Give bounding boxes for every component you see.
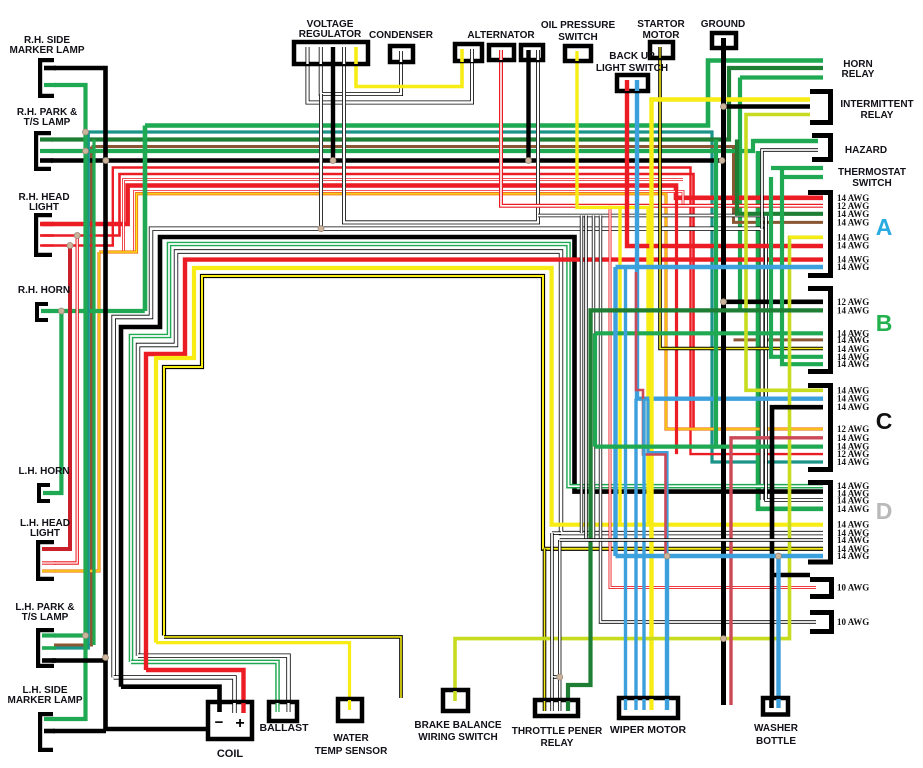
wire gray branch to 10AWG-2 connector bbox=[601, 216, 817, 623]
pin RH horn bbox=[41, 309, 50, 313]
wire white loop line1 down to D3 bbox=[114, 229, 762, 678]
pin ground bbox=[721, 38, 726, 48]
wire VR black to black bus bbox=[331, 52, 335, 161]
svg-text:14 AWG: 14 AWG bbox=[837, 402, 869, 412]
wire red branch connector C pin7 join bbox=[675, 186, 678, 455]
node ground B1 junction bbox=[721, 299, 727, 305]
svg-text:MARKER LAMP: MARKER LAMP bbox=[10, 45, 85, 56]
wire yellow water temp drop bbox=[156, 643, 350, 703]
connector LH horn bbox=[39, 485, 50, 501]
connector 10AWG upper bbox=[810, 580, 832, 597]
wire green bus to horn relay A bbox=[145, 61, 823, 126]
pin VR 5 bbox=[354, 47, 358, 64]
wire coil white drop bbox=[114, 677, 235, 706]
pin coil black bbox=[217, 703, 222, 712]
wire black main bus bbox=[51, 158, 724, 163]
wire red-white RH pin2 to LH headlight pin2 bbox=[54, 236, 77, 564]
pin RH side marker green bbox=[44, 83, 56, 87]
pin oil pressure bbox=[575, 51, 578, 61]
brake balance switch box bbox=[443, 690, 468, 711]
washer bottle box bbox=[763, 698, 788, 715]
ground box bbox=[712, 33, 736, 48]
connector LH side marker lamp bbox=[40, 714, 53, 750]
svg-text:RELAY: RELAY bbox=[861, 110, 894, 121]
wire VR gray down to white bus bbox=[319, 94, 323, 229]
pin startor bbox=[658, 47, 661, 58]
pin LH side marker green bbox=[44, 717, 55, 721]
pin LH park 1 bbox=[42, 633, 56, 637]
wire dark-yellow throttle relay pin1 bbox=[543, 549, 547, 706]
wire maroon jog wire bbox=[636, 272, 666, 556]
node throttle white junction bbox=[557, 674, 563, 680]
svg-text:BOTTLE: BOTTLE bbox=[756, 736, 796, 747]
svg-text:BACK UP: BACK UP bbox=[609, 51, 655, 62]
node RH head pin2 junction bbox=[74, 233, 80, 239]
wire teal bus to connector C pin8 bbox=[86, 132, 824, 462]
pin alternator black bbox=[526, 50, 530, 60]
wire black washer to 10AWG-1 box bbox=[772, 573, 810, 578]
pin throttle 3 bbox=[558, 701, 561, 711]
wire light blue wiper pin1 bbox=[624, 267, 627, 703]
node park teal junction bbox=[83, 129, 89, 135]
wire red bus RH pin3 to connector C pin7 bbox=[42, 168, 823, 455]
wire green vertical inner trunk bbox=[92, 140, 95, 646]
intermittent relay box bbox=[810, 92, 831, 123]
wire black LH side marker pin2 stub bbox=[53, 729, 106, 734]
startor motor box bbox=[650, 42, 673, 58]
node LH park pin3 junction bbox=[103, 655, 109, 661]
svg-text:10 AWG: 10 AWG bbox=[837, 617, 869, 627]
wire black stub intermittent relay bbox=[724, 104, 811, 109]
wire blue drop wiper motor pin5 bbox=[665, 556, 669, 703]
wire gray pair extra bbox=[592, 216, 595, 541]
pin throttle 1 bbox=[543, 701, 547, 711]
wire black connector C pin3 to washer bottle bbox=[772, 407, 823, 698]
wire green vertical bus to horn bbox=[143, 126, 148, 312]
svg-text:REGULATOR: REGULATOR bbox=[299, 29, 362, 40]
wire VR gray to alternator bbox=[308, 52, 473, 103]
connector RH side marker lamp bbox=[40, 60, 54, 96]
wire dark green connector B pin2 to throttle relay bbox=[568, 310, 823, 706]
wire chartreuse A5 tip bbox=[790, 236, 824, 239]
svg-text:RELAY: RELAY bbox=[842, 69, 875, 80]
wire yellow startor bus to intermittent relay bbox=[652, 100, 811, 699]
svg-text:HAZARD: HAZARD bbox=[845, 145, 887, 156]
wire thermostat stub lower bbox=[782, 175, 823, 179]
pin RH park 1 bbox=[40, 137, 53, 141]
wire yellow loop line6 to connector D pin5 bbox=[156, 268, 823, 643]
wire green vertical RH horn to LH horn bbox=[50, 311, 61, 493]
pin alternator yellow bbox=[460, 49, 464, 62]
pin RH side marker black bbox=[44, 66, 56, 71]
pin VR 3 bbox=[331, 47, 335, 64]
wire gray branch to connector D pin7 bbox=[584, 216, 587, 541]
wire dark-yellow loop line7 to connector D pin8 bbox=[164, 276, 823, 636]
pin water temp bbox=[348, 700, 351, 710]
pin LH park 2 bbox=[42, 646, 56, 650]
node ground chartreuse crossing bbox=[721, 636, 727, 642]
svg-text:WIPER MOTOR: WIPER MOTOR bbox=[610, 724, 687, 736]
pin alternator white bbox=[536, 50, 540, 60]
node black bus ground junction bbox=[719, 158, 725, 164]
pin wiper 3 bbox=[642, 699, 645, 710]
node park green junction bbox=[83, 148, 89, 154]
svg-text:14 AWG: 14 AWG bbox=[837, 504, 869, 514]
wire brown vertical to LH park lamp bbox=[54, 147, 92, 646]
wire dark green park lamp to horn relay B bbox=[51, 68, 823, 140]
svg-text:14 AWG: 14 AWG bbox=[837, 305, 869, 315]
node black bus alternator junction bbox=[526, 158, 532, 164]
svg-text:BRAKE BALANCE: BRAKE BALANCE bbox=[414, 720, 502, 731]
wire white D7 bus bbox=[560, 538, 823, 541]
alternator box 3 bbox=[521, 45, 543, 60]
connector D bbox=[808, 483, 831, 563]
pin wiper 2 bbox=[634, 699, 637, 710]
pin VR 4 bbox=[342, 47, 346, 64]
svg-text:14 AWG: 14 AWG bbox=[837, 457, 869, 467]
wire chartreuse intermittent relay to connector C pin1 bbox=[746, 115, 823, 391]
wire green horn relay C stub bbox=[740, 75, 823, 79]
svg-text:INTERMITTENT: INTERMITTENT bbox=[840, 99, 913, 110]
connector RH park T/S lamp bbox=[36, 133, 51, 169]
connector RH head light bbox=[36, 215, 52, 255]
pin throttle 2 bbox=[550, 701, 553, 711]
svg-text:14 AWG: 14 AWG bbox=[837, 262, 869, 272]
svg-text:MARKER LAMP: MARKER LAMP bbox=[8, 695, 83, 706]
wire VR gray to condenser bbox=[321, 52, 401, 94]
wire blue connector A pin8 bus bbox=[616, 265, 824, 269]
wire blue drop washer bottle bbox=[776, 556, 780, 703]
wire dark-yellow bottom hang bbox=[164, 637, 401, 698]
wire teal vertical to LH park pin2 bbox=[54, 132, 88, 648]
svg-text:WATER: WATER bbox=[333, 733, 369, 744]
pin RH park 2 bbox=[40, 149, 53, 153]
wire green vertical B3 to C6 bbox=[593, 333, 597, 446]
wire alternator black drop bbox=[526, 58, 530, 161]
wire white throttle relay pin3 bbox=[558, 540, 561, 706]
wire oil pressure yellow bbox=[577, 59, 648, 525]
wire chartreuse connector A pin5 to brake switch bbox=[455, 237, 823, 693]
svg-text:WIRING SWITCH: WIRING SWITCH bbox=[418, 732, 497, 743]
pin LH horn bbox=[43, 491, 52, 495]
svg-text:14 AWG: 14 AWG bbox=[837, 217, 869, 227]
pin backup red bbox=[625, 80, 629, 91]
svg-text:STARTOR: STARTOR bbox=[637, 19, 685, 30]
pin RH head 1 bbox=[40, 222, 54, 226]
svg-text:BALLAST: BALLAST bbox=[260, 722, 310, 734]
wire thermostat green to connector B pin6 bbox=[771, 177, 823, 357]
pin washer black bbox=[769, 699, 774, 708]
wire coil red drop bbox=[146, 670, 244, 706]
svg-text:RELAY: RELAY bbox=[541, 738, 574, 749]
pin RH head 3 bbox=[40, 244, 54, 246]
wire startor dark wire to connector B pin5 bbox=[660, 56, 823, 349]
wire brown bus to connector A pin4 bbox=[92, 147, 824, 223]
svg-text:SWITCH: SWITCH bbox=[558, 32, 597, 43]
wire green vertical to connector D pin4 bbox=[758, 151, 823, 509]
wire VR yellow to alternator bbox=[356, 52, 462, 87]
backup light switch box bbox=[617, 75, 648, 91]
node ground intermittent junction bbox=[721, 104, 727, 110]
pin RH head 2 bbox=[40, 234, 54, 237]
oil pressure switch box bbox=[565, 46, 591, 61]
pin LH head 3 bbox=[42, 569, 56, 572]
pin RH park 3 bbox=[40, 158, 53, 163]
svg-text:WASHER: WASHER bbox=[754, 723, 799, 734]
wire red-white bus second row bbox=[124, 180, 684, 253]
wire green horn link bbox=[48, 309, 145, 313]
wire light blue wiper pin3 bbox=[642, 399, 645, 703]
wire green park pin2 to hazard bbox=[51, 141, 818, 151]
pin brake balance bbox=[453, 691, 457, 701]
node blue D9 wiper junction bbox=[664, 553, 670, 559]
wire blue stub connector D pin9 bbox=[781, 554, 823, 558]
connector C bbox=[808, 386, 831, 470]
wire light blue wiper pin2 bbox=[634, 399, 637, 703]
wire VR white to alternator box3 bbox=[344, 52, 538, 222]
wiper motor box bbox=[619, 698, 678, 718]
wire white D6 bus left end bbox=[552, 531, 561, 534]
connector RH horn bbox=[37, 304, 48, 320]
wire hazard green stub bbox=[753, 139, 818, 143]
svg-text:COIL: COIL bbox=[217, 748, 244, 760]
node blue D9 washer junction bbox=[776, 553, 782, 559]
svg-text:B: B bbox=[876, 310, 893, 336]
wire orange vertical to LH headlight bbox=[54, 252, 99, 571]
pin alternator gray bbox=[470, 49, 474, 62]
node horn green junction bbox=[58, 308, 64, 314]
pin LH side marker black bbox=[44, 729, 55, 734]
wire red-white bus to connector A pin2 bbox=[135, 192, 684, 253]
wire gray branch to connector D pin6 bbox=[580, 216, 583, 534]
svg-text:THROTTLE PENER: THROTTLE PENER bbox=[512, 726, 603, 737]
pin washer blue bbox=[776, 699, 780, 708]
connector B bbox=[808, 289, 831, 372]
svg-text:C: C bbox=[876, 408, 893, 434]
pin wiper 5 bbox=[665, 699, 669, 710]
wire white loop line4 to connector D pin6 bbox=[138, 252, 823, 656]
wire blue vertical to D9 bus bbox=[613, 267, 617, 556]
svg-text:R.H. HORN: R.H. HORN bbox=[18, 285, 70, 296]
hazard box bbox=[812, 136, 831, 160]
pin alternator pink bbox=[499, 50, 503, 60]
wire white bus to connector D pin3 bbox=[538, 216, 823, 501]
wire crimson RH pin3 to LH headlight pin1 bbox=[54, 246, 70, 550]
wire maroon connector C pin5 bbox=[731, 438, 823, 705]
connector LH park T/S lamp bbox=[38, 630, 54, 666]
pin VR 1 bbox=[306, 47, 310, 64]
pin wiper 4 bbox=[649, 699, 653, 710]
pin LH head 2 bbox=[42, 561, 56, 564]
svg-text:T/S LAMP: T/S LAMP bbox=[22, 612, 69, 623]
wire thick red RH pin1 to connector A pin1 bbox=[42, 186, 823, 225]
pin throttle 4 bbox=[566, 701, 570, 711]
pin ballast white bbox=[287, 703, 291, 712]
wire blue jog wiper pin5 feed bbox=[648, 399, 667, 556]
svg-text:ALTERNATOR: ALTERNATOR bbox=[467, 30, 535, 41]
wire yellow branch to connector D pin5 bbox=[618, 207, 621, 524]
wire white relay pin2 drop bbox=[550, 677, 553, 706]
connector LH head light bbox=[38, 542, 54, 579]
wire green vertical horn relay C bbox=[738, 78, 742, 311]
wire black stub connector B pin1 bbox=[724, 299, 824, 304]
coil box bbox=[208, 702, 252, 739]
svg-text:LIGHT: LIGHT bbox=[30, 528, 60, 539]
pin coil white bbox=[232, 703, 236, 713]
wire red loop line5 to connector A pin7 bbox=[146, 260, 823, 670]
node black bus side marker junction bbox=[103, 158, 109, 164]
wire backup blue to connector C pin2 bbox=[637, 88, 823, 399]
ballast box bbox=[269, 702, 297, 721]
wire alternator red-white to connector A pin2 bbox=[501, 58, 823, 206]
svg-text:A: A bbox=[876, 214, 893, 240]
alternator box 1 bbox=[455, 44, 482, 61]
node white bus VR junction bbox=[318, 226, 324, 232]
wire green-white loop line3 to connector D pin1 bbox=[131, 244, 823, 662]
svg-text:−: − bbox=[215, 714, 224, 731]
svg-text:+: + bbox=[235, 715, 244, 732]
wire hazard white wire bbox=[762, 150, 818, 229]
wire black side marker chain bbox=[54, 68, 210, 729]
node RH head pin3 junction bbox=[67, 243, 73, 249]
svg-text:LIGHT SWITCH: LIGHT SWITCH bbox=[596, 63, 668, 74]
wire dark green drop to connector A pin3 bbox=[737, 140, 823, 214]
wire black loop line2 to connector D pin2 bbox=[121, 237, 823, 687]
svg-text:THERMOSTAT: THERMOSTAT bbox=[838, 167, 906, 178]
wire backup red to connector A pin6 bbox=[627, 88, 823, 246]
wire ground main vertical bbox=[721, 46, 726, 705]
wire green bus connector C pin6 left bbox=[595, 445, 716, 449]
condenser box bbox=[390, 46, 413, 62]
wire green connector B pin3 bus bbox=[595, 331, 823, 335]
voltage regulator box bbox=[294, 42, 368, 64]
svg-text:L.H. HORN: L.H. HORN bbox=[18, 466, 69, 477]
svg-text:10 AWG: 10 AWG bbox=[837, 583, 869, 593]
svg-text:T/S LAMP: T/S LAMP bbox=[24, 117, 71, 128]
throttle pener relay box bbox=[535, 700, 578, 716]
pin condenser bbox=[399, 51, 403, 62]
svg-text:SWITCH: SWITCH bbox=[852, 178, 891, 189]
svg-text:CONDENSER: CONDENSER bbox=[369, 30, 434, 41]
node LH park pin1 junction bbox=[83, 633, 89, 639]
svg-text:TEMP SENSOR: TEMP SENSOR bbox=[315, 746, 388, 757]
wire white throttle relay pin2 bbox=[552, 533, 560, 677]
wire thermostat stub upper bbox=[771, 166, 823, 170]
svg-text:14 AWG: 14 AWG bbox=[837, 551, 869, 561]
connector 10AWG lower bbox=[810, 613, 832, 632]
pin VR 2 bbox=[319, 47, 323, 64]
wire red-white drop to 10AWG-1 connector bbox=[610, 206, 816, 588]
wire brown stub connector B pin4 bbox=[734, 338, 824, 341]
wire black LH park pin3 stub bbox=[52, 658, 106, 663]
connector A bbox=[808, 193, 831, 276]
pin LH park 3 bbox=[42, 658, 56, 663]
svg-text:D: D bbox=[876, 498, 893, 524]
wire green drop to connector C pin6 bbox=[716, 140, 823, 447]
wire ballast white drop bbox=[138, 656, 289, 706]
pin coil red bbox=[241, 703, 245, 713]
pin wiper 1 bbox=[624, 699, 627, 710]
pin LH head 1 bbox=[42, 547, 56, 551]
wire ballast green drop bbox=[131, 662, 278, 706]
water temp sensor box bbox=[338, 699, 362, 721]
wire coil black drop bbox=[121, 687, 220, 706]
wire green side marker vertical bbox=[53, 85, 86, 719]
svg-text:OIL PRESSURE: OIL PRESSURE bbox=[541, 20, 616, 31]
pin ballast green bbox=[275, 703, 279, 712]
wire red bus RH pin2 chain bbox=[42, 174, 694, 429]
svg-text:LIGHT: LIGHT bbox=[29, 202, 59, 213]
node black bus VR junction bbox=[330, 158, 336, 164]
alternator box 2 bbox=[489, 45, 514, 60]
svg-text:MOTOR: MOTOR bbox=[642, 30, 680, 41]
pin backup blue bbox=[635, 80, 639, 91]
wire green LH park pin1 stub bbox=[54, 633, 86, 637]
svg-text:14 AWG: 14 AWG bbox=[837, 241, 869, 251]
wire blue D9 bus bbox=[616, 554, 782, 558]
wire thermostat green to connector B pin7 bbox=[782, 168, 823, 364]
svg-text:14 AWG: 14 AWG bbox=[837, 359, 869, 369]
wire orange red-yellow bus to connector C pin4 bbox=[99, 194, 823, 429]
svg-text:GROUND: GROUND bbox=[701, 19, 745, 30]
